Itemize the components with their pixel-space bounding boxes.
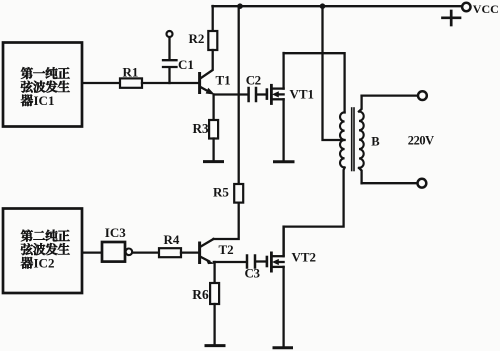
svg-text:T1: T1 — [216, 73, 231, 88]
svg-text:R1: R1 — [123, 65, 139, 80]
svg-text:IC1: IC1 — [34, 93, 55, 108]
svg-text:IC2: IC2 — [34, 256, 55, 271]
svg-text:VT1: VT1 — [290, 87, 315, 102]
svg-text:R3: R3 — [193, 121, 210, 136]
svg-text:B: B — [371, 134, 380, 148]
svg-text:R4: R4 — [164, 232, 180, 247]
svg-text:IC3: IC3 — [105, 225, 126, 240]
svg-text:VT2: VT2 — [292, 250, 317, 265]
svg-text:R2: R2 — [189, 31, 205, 46]
svg-text:R5: R5 — [213, 185, 229, 200]
svg-text:R6: R6 — [192, 287, 209, 302]
svg-text:VCC: VCC — [473, 2, 499, 16]
svg-text:C3: C3 — [245, 266, 261, 281]
svg-text:T2: T2 — [219, 242, 234, 257]
svg-text:C1: C1 — [178, 57, 194, 72]
svg-text:220V: 220V — [408, 134, 434, 148]
svg-text:C2: C2 — [246, 73, 261, 88]
